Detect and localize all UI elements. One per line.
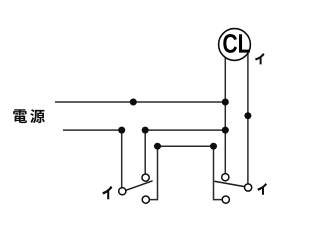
wire: L-drop to right switch lower throw (214, 146, 223, 199)
lamp CL (ceiling light) circle (219, 29, 251, 61)
label イ at right switch (257, 183, 267, 195)
junction dot third line left end (154, 143, 161, 150)
wire: CL left lead vertical down to switch terminal (224, 48, 226, 174)
right switch lower throw terminal (222, 196, 229, 203)
wire: vertical to left switch common (121, 130, 123, 188)
wire: CL right lead vertical down to right switch common (247, 48, 249, 184)
left switch lower throw terminal (142, 196, 149, 203)
label イ at left switch (102, 186, 112, 200)
wire: power neutral line left segment (63, 129, 122, 131)
junction dot hot line / CL left lead (222, 99, 229, 106)
wire: traveler line (third horizontal) (158, 145, 214, 147)
left switch common terminal (119, 188, 126, 195)
label イ at lamp CL (255, 53, 265, 64)
right 3-way switch blade (slant) (214, 181, 244, 186)
junction dot third line right end (210, 143, 217, 150)
wire: vertical to left switch upper throw (144, 130, 146, 174)
right switch common terminal (245, 184, 252, 191)
wire: L-drop to left switch lower throw (149, 146, 157, 199)
label 電 (power source, char 1) (13, 109, 27, 123)
right switch upper throw terminal (222, 174, 229, 181)
wire: traveler line (second horizontal, right segment) (145, 129, 225, 131)
left switch upper throw terminal (142, 174, 149, 181)
wire: power hot line (top horizontal) (55, 101, 225, 103)
lamp CL label text (223, 34, 249, 53)
junction dot traveler line left end (142, 127, 149, 134)
junction dot on CL right lead (244, 112, 251, 119)
label 源 (power source, char 2) (30, 109, 44, 123)
junction dot on hot line (130, 99, 137, 106)
left 3-way switch blade (slant) (126, 181, 153, 191)
junction dot neutral left end (118, 127, 125, 134)
junction dot traveler line right end (222, 127, 229, 134)
